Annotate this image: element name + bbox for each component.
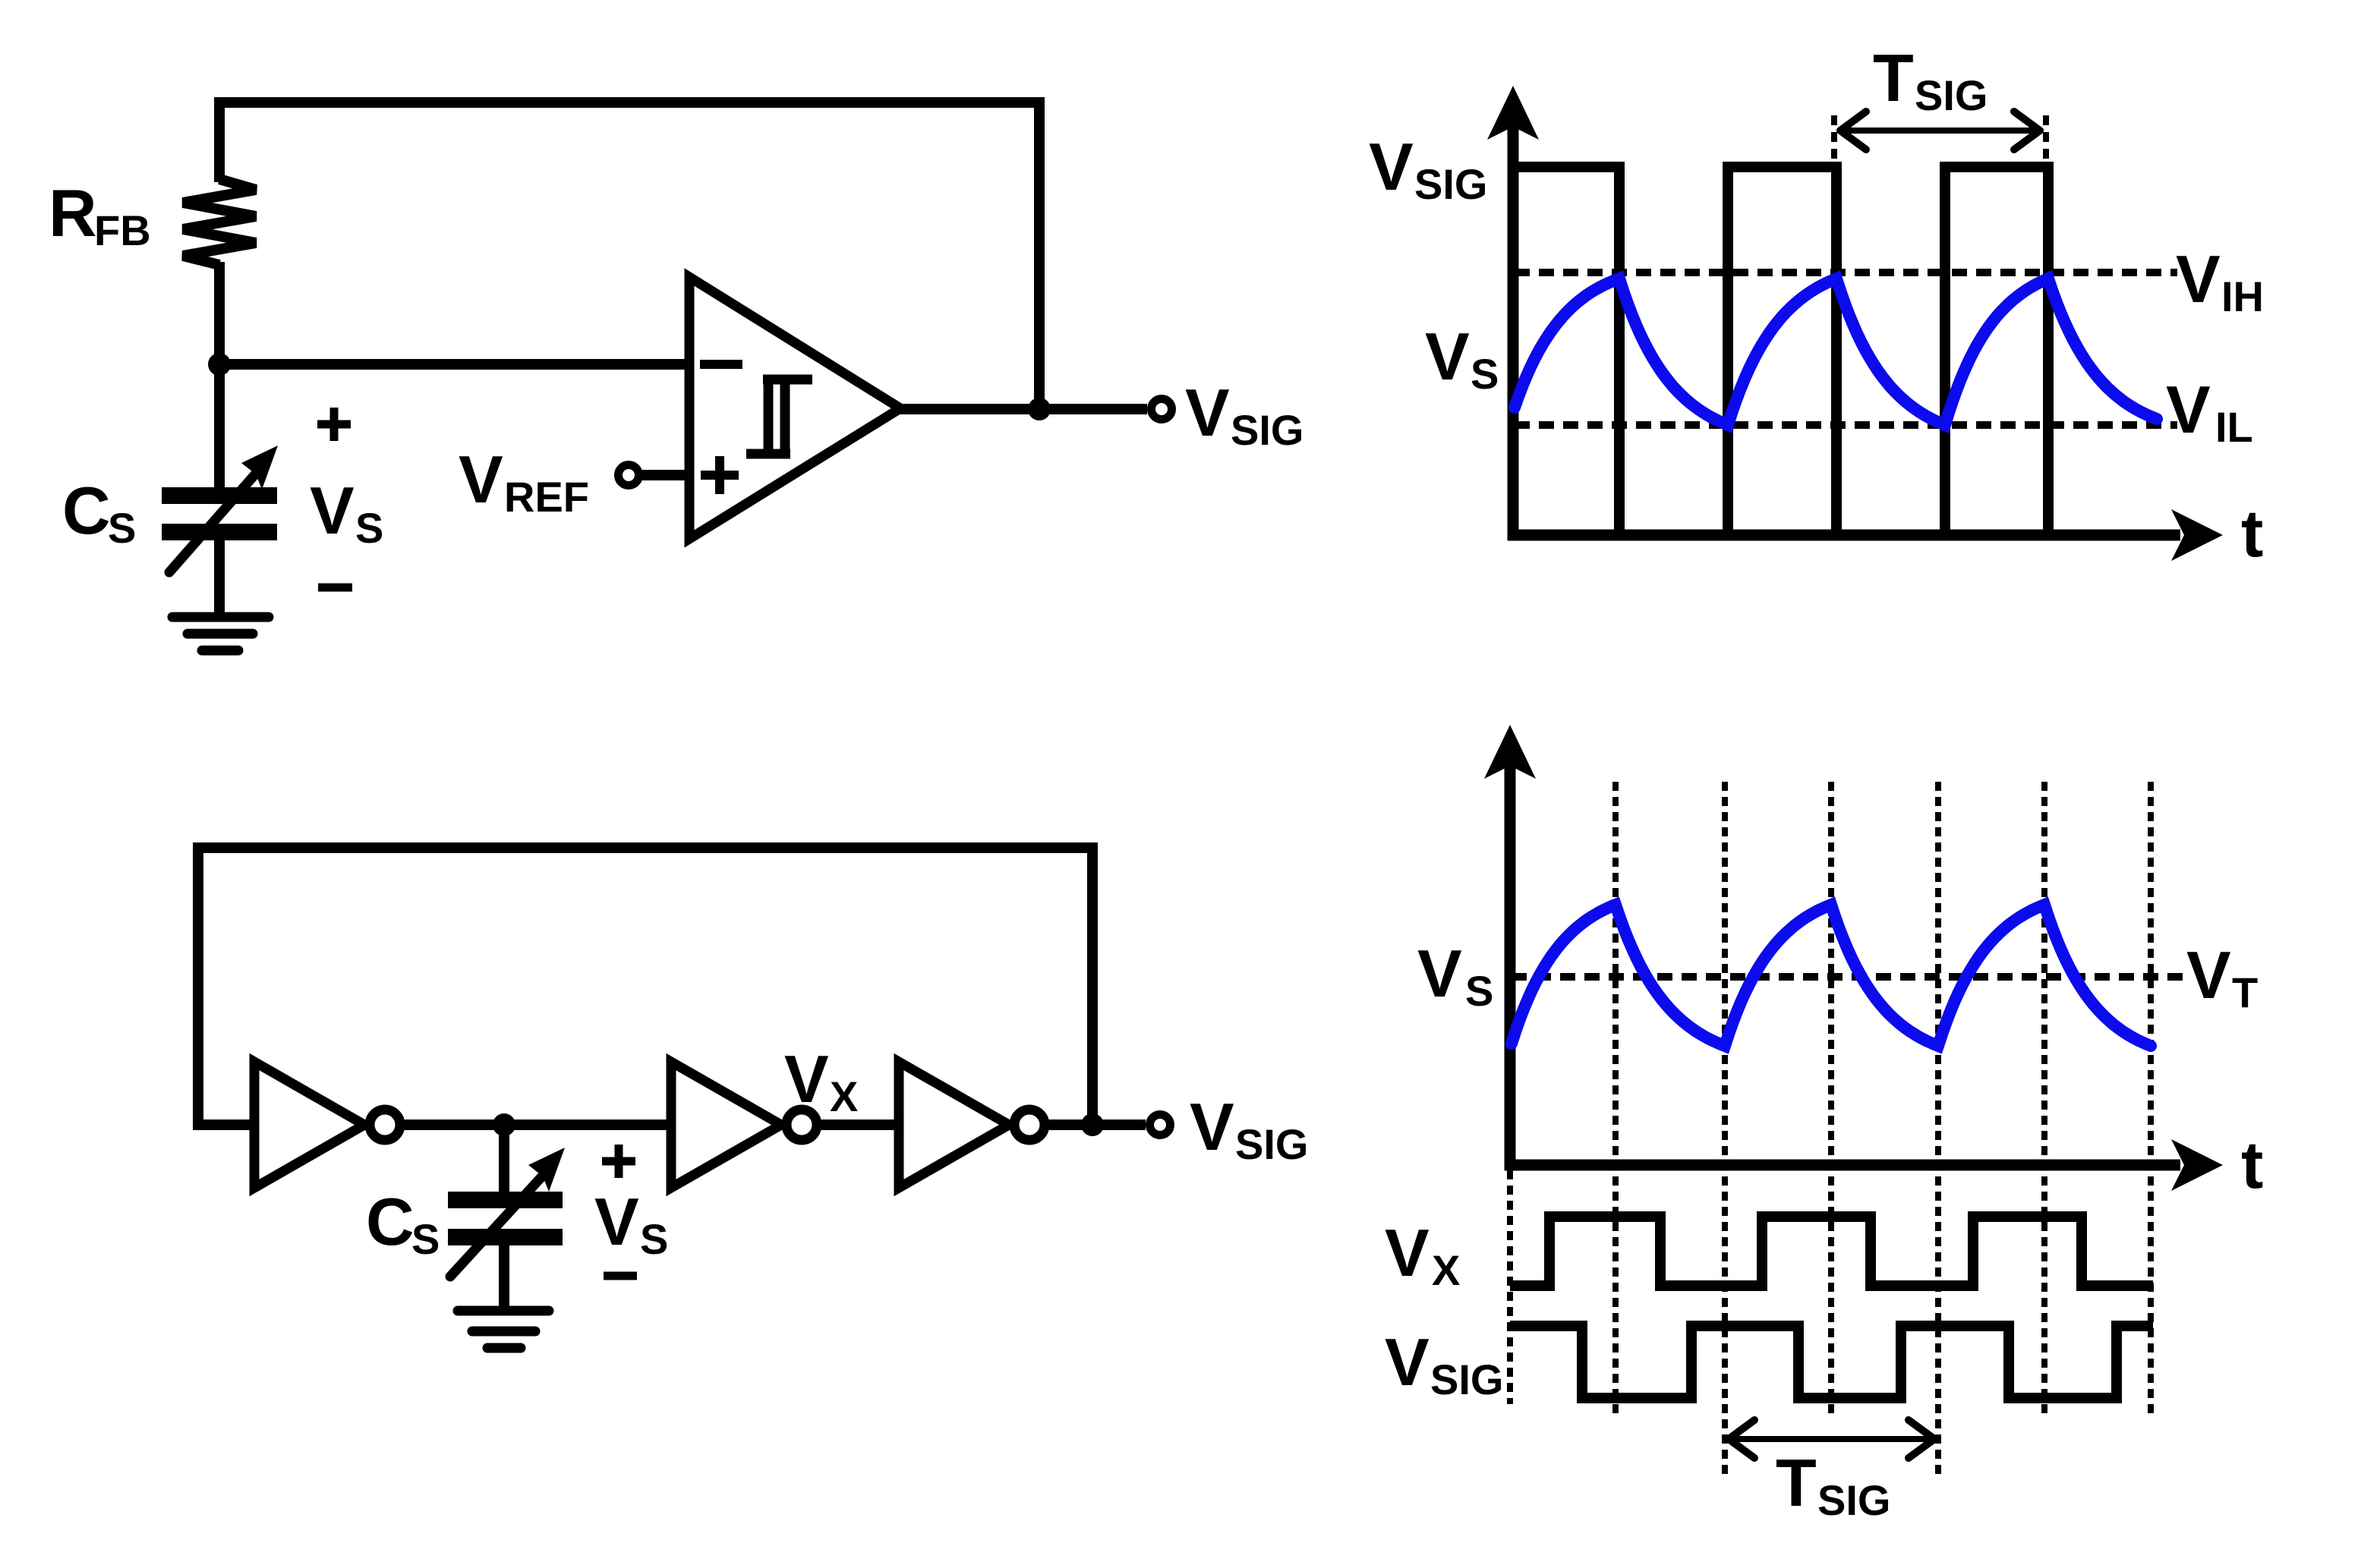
wire node to capacitor CS — [214, 364, 225, 490]
svg-text:X: X — [1432, 1246, 1460, 1294]
wire inverter1 to node — [405, 1119, 671, 1130]
TSIG dimension arrow (top-right) — [1840, 112, 2040, 150]
square wave VX — [1510, 1217, 2153, 1286]
inverter 1 bubble — [370, 1110, 400, 1140]
blue curve VS (bottom-right) — [1512, 905, 2151, 1046]
dashed threshold VIH — [1515, 269, 2177, 276]
svg-text:V: V — [784, 1041, 829, 1116]
svg-text:V: V — [1369, 129, 1414, 204]
inverter 2 bubble — [787, 1110, 817, 1140]
svg-text:SIG: SIG — [1414, 160, 1487, 208]
y-axis arrowhead (bottom-right) — [1484, 725, 1536, 779]
x-axis (top-right) — [1508, 530, 2180, 541]
label plus (CS polarity) — [317, 408, 351, 441]
svg-text:V: V — [2186, 937, 2231, 1012]
resistor RFB — [183, 179, 256, 265]
ground symbol (top-left) — [172, 617, 269, 650]
TSIG dashed tick left (top-right) — [1831, 115, 1837, 165]
svg-text:T: T — [1873, 40, 1914, 115]
node output junction — [1028, 398, 1051, 420]
svg-text:V: V — [594, 1184, 639, 1259]
svg-text:V: V — [1385, 1324, 1430, 1400]
svg-text:S: S — [108, 504, 136, 552]
svg-text:V: V — [1185, 375, 1230, 450]
svg-text:SIG: SIG — [1430, 1356, 1503, 1403]
svg-text:V: V — [2166, 372, 2211, 447]
x-axis (bottom-right) — [1505, 1160, 2180, 1171]
wire CS to ground (bottom-left) — [499, 1245, 509, 1311]
dashed vertical at axis (bottom-right) — [1507, 1170, 1513, 1404]
svg-text:SIG: SIG — [1915, 71, 1988, 119]
capacitor CS bottom plate — [162, 524, 277, 540]
terminal VSIG (bottom-left) — [1150, 1115, 1171, 1135]
blue curve VS (top-right) — [1515, 279, 2157, 425]
terminal VREF — [619, 465, 639, 486]
wire inverting input — [219, 359, 689, 370]
svg-text:S: S — [411, 1215, 440, 1263]
svg-text:t: t — [2241, 496, 2263, 571]
dashed vertical 3 (peak) — [1828, 782, 1834, 1413]
svg-text:C: C — [62, 473, 111, 548]
inverter 3 triangle — [899, 1062, 1009, 1188]
y-axis arrowhead (top-right) — [1487, 86, 1539, 140]
svg-text:t: t — [2241, 1127, 2263, 1202]
wire RFB top lead — [214, 97, 225, 182]
svg-text:IL: IL — [2215, 403, 2253, 451]
dashed threshold VIL — [1515, 421, 2177, 429]
comparator plus input label — [701, 456, 739, 494]
svg-text:C: C — [366, 1184, 415, 1259]
svg-text:S: S — [1471, 350, 1499, 398]
svg-text:V: V — [1385, 1215, 1430, 1290]
svg-text:S: S — [640, 1215, 668, 1263]
y-axis (top-right) — [1508, 125, 1519, 540]
node VS junction (bottom-left) — [493, 1113, 515, 1136]
inverter 3 bubble — [1014, 1110, 1045, 1140]
wire CS to ground — [214, 540, 225, 617]
svg-text:V: V — [1417, 936, 1462, 1011]
capacitor CS top plate (bottom-left) — [448, 1192, 563, 1208]
square wave VSIG (top-right) — [1513, 167, 2048, 535]
y-axis (bottom-right) — [1505, 763, 1516, 1170]
capacitor CS top plate — [162, 487, 277, 504]
ground symbol (bottom-left) — [458, 1311, 549, 1348]
svg-text:R: R — [49, 175, 97, 250]
varactor arrow through CS — [169, 446, 278, 572]
svg-text:SIG: SIG — [1231, 406, 1303, 454]
dashed vertical 4 (valley, TSIG right) — [1935, 782, 1941, 1480]
hysteresis symbol inside comparator — [746, 379, 812, 454]
dashed vertical 6 (end) — [2148, 782, 2154, 1413]
wire RFB bottom lead — [214, 262, 225, 364]
svg-text:T: T — [2232, 968, 2258, 1016]
wire node to capacitor CS (bottom-left) — [499, 1125, 509, 1193]
svg-text:SIG: SIG — [1817, 1476, 1890, 1524]
wire VX to inverter 3 — [821, 1119, 899, 1130]
comparator minus input label — [700, 360, 742, 369]
inverter 1 triangle — [254, 1062, 364, 1188]
dashed threshold VT — [1512, 973, 2183, 981]
square wave VSIG (bottom-right) — [1510, 1326, 2153, 1398]
wire comparator output — [900, 404, 1147, 414]
dashed vertical 2 (valley, TSIG left) — [1722, 782, 1728, 1480]
svg-text:S: S — [355, 504, 383, 552]
svg-text:FB: FB — [94, 206, 151, 254]
inverter 2 triangle — [671, 1062, 781, 1188]
svg-text:SIG: SIG — [1235, 1120, 1308, 1168]
terminal VSIG (top-left) — [1152, 399, 1172, 420]
x-axis arrowhead (top-right) — [2171, 509, 2223, 561]
label minus (CS polarity) — [318, 584, 352, 592]
wire input to inverter 1 — [193, 1119, 254, 1130]
wire inverter3 to VSIG terminal — [1049, 1119, 1146, 1130]
x-axis arrowhead (bottom-right) — [2171, 1139, 2223, 1191]
wire top feedback horizontal — [219, 97, 1039, 108]
svg-text:V: V — [459, 442, 503, 517]
label plus (bottom-left CS) — [602, 1145, 635, 1178]
capacitor CS bottom plate (bottom-left) — [448, 1229, 563, 1245]
label minus (bottom-left CS) — [604, 1272, 637, 1280]
wire feedback vertical right (bottom-left) — [1087, 842, 1098, 1125]
op-amp U1 Schmitt comparator triangle — [689, 277, 900, 539]
varactor arrow through CS (bottom-left) — [450, 1148, 565, 1277]
svg-text:V: V — [1190, 1089, 1234, 1164]
dashed vertical 1 (peak) — [1612, 782, 1619, 1413]
node inverting-input junction — [208, 353, 231, 376]
svg-text:V: V — [2176, 241, 2221, 316]
wire feedback vertical right — [1034, 97, 1045, 409]
svg-text:T: T — [1776, 1445, 1817, 1520]
node output junction (bottom-left) — [1081, 1113, 1104, 1136]
svg-text:V: V — [310, 473, 355, 548]
wire top feedback horizontal (bottom-left) — [198, 842, 1092, 853]
svg-text:X: X — [830, 1072, 858, 1120]
wire feedback vertical left (bottom-left) — [193, 842, 203, 1125]
svg-text:V: V — [1425, 319, 1470, 394]
svg-text:S: S — [1465, 967, 1493, 1015]
svg-text:IH: IH — [2221, 272, 2264, 320]
TSIG dimension arrow (bottom-right) — [1729, 1420, 1934, 1458]
TSIG dashed tick right (top-right) — [2043, 115, 2049, 165]
svg-text:REF: REF — [504, 473, 589, 521]
dashed vertical 5 (peak) — [2041, 782, 2047, 1413]
wire VREF to comparator — [642, 470, 689, 480]
